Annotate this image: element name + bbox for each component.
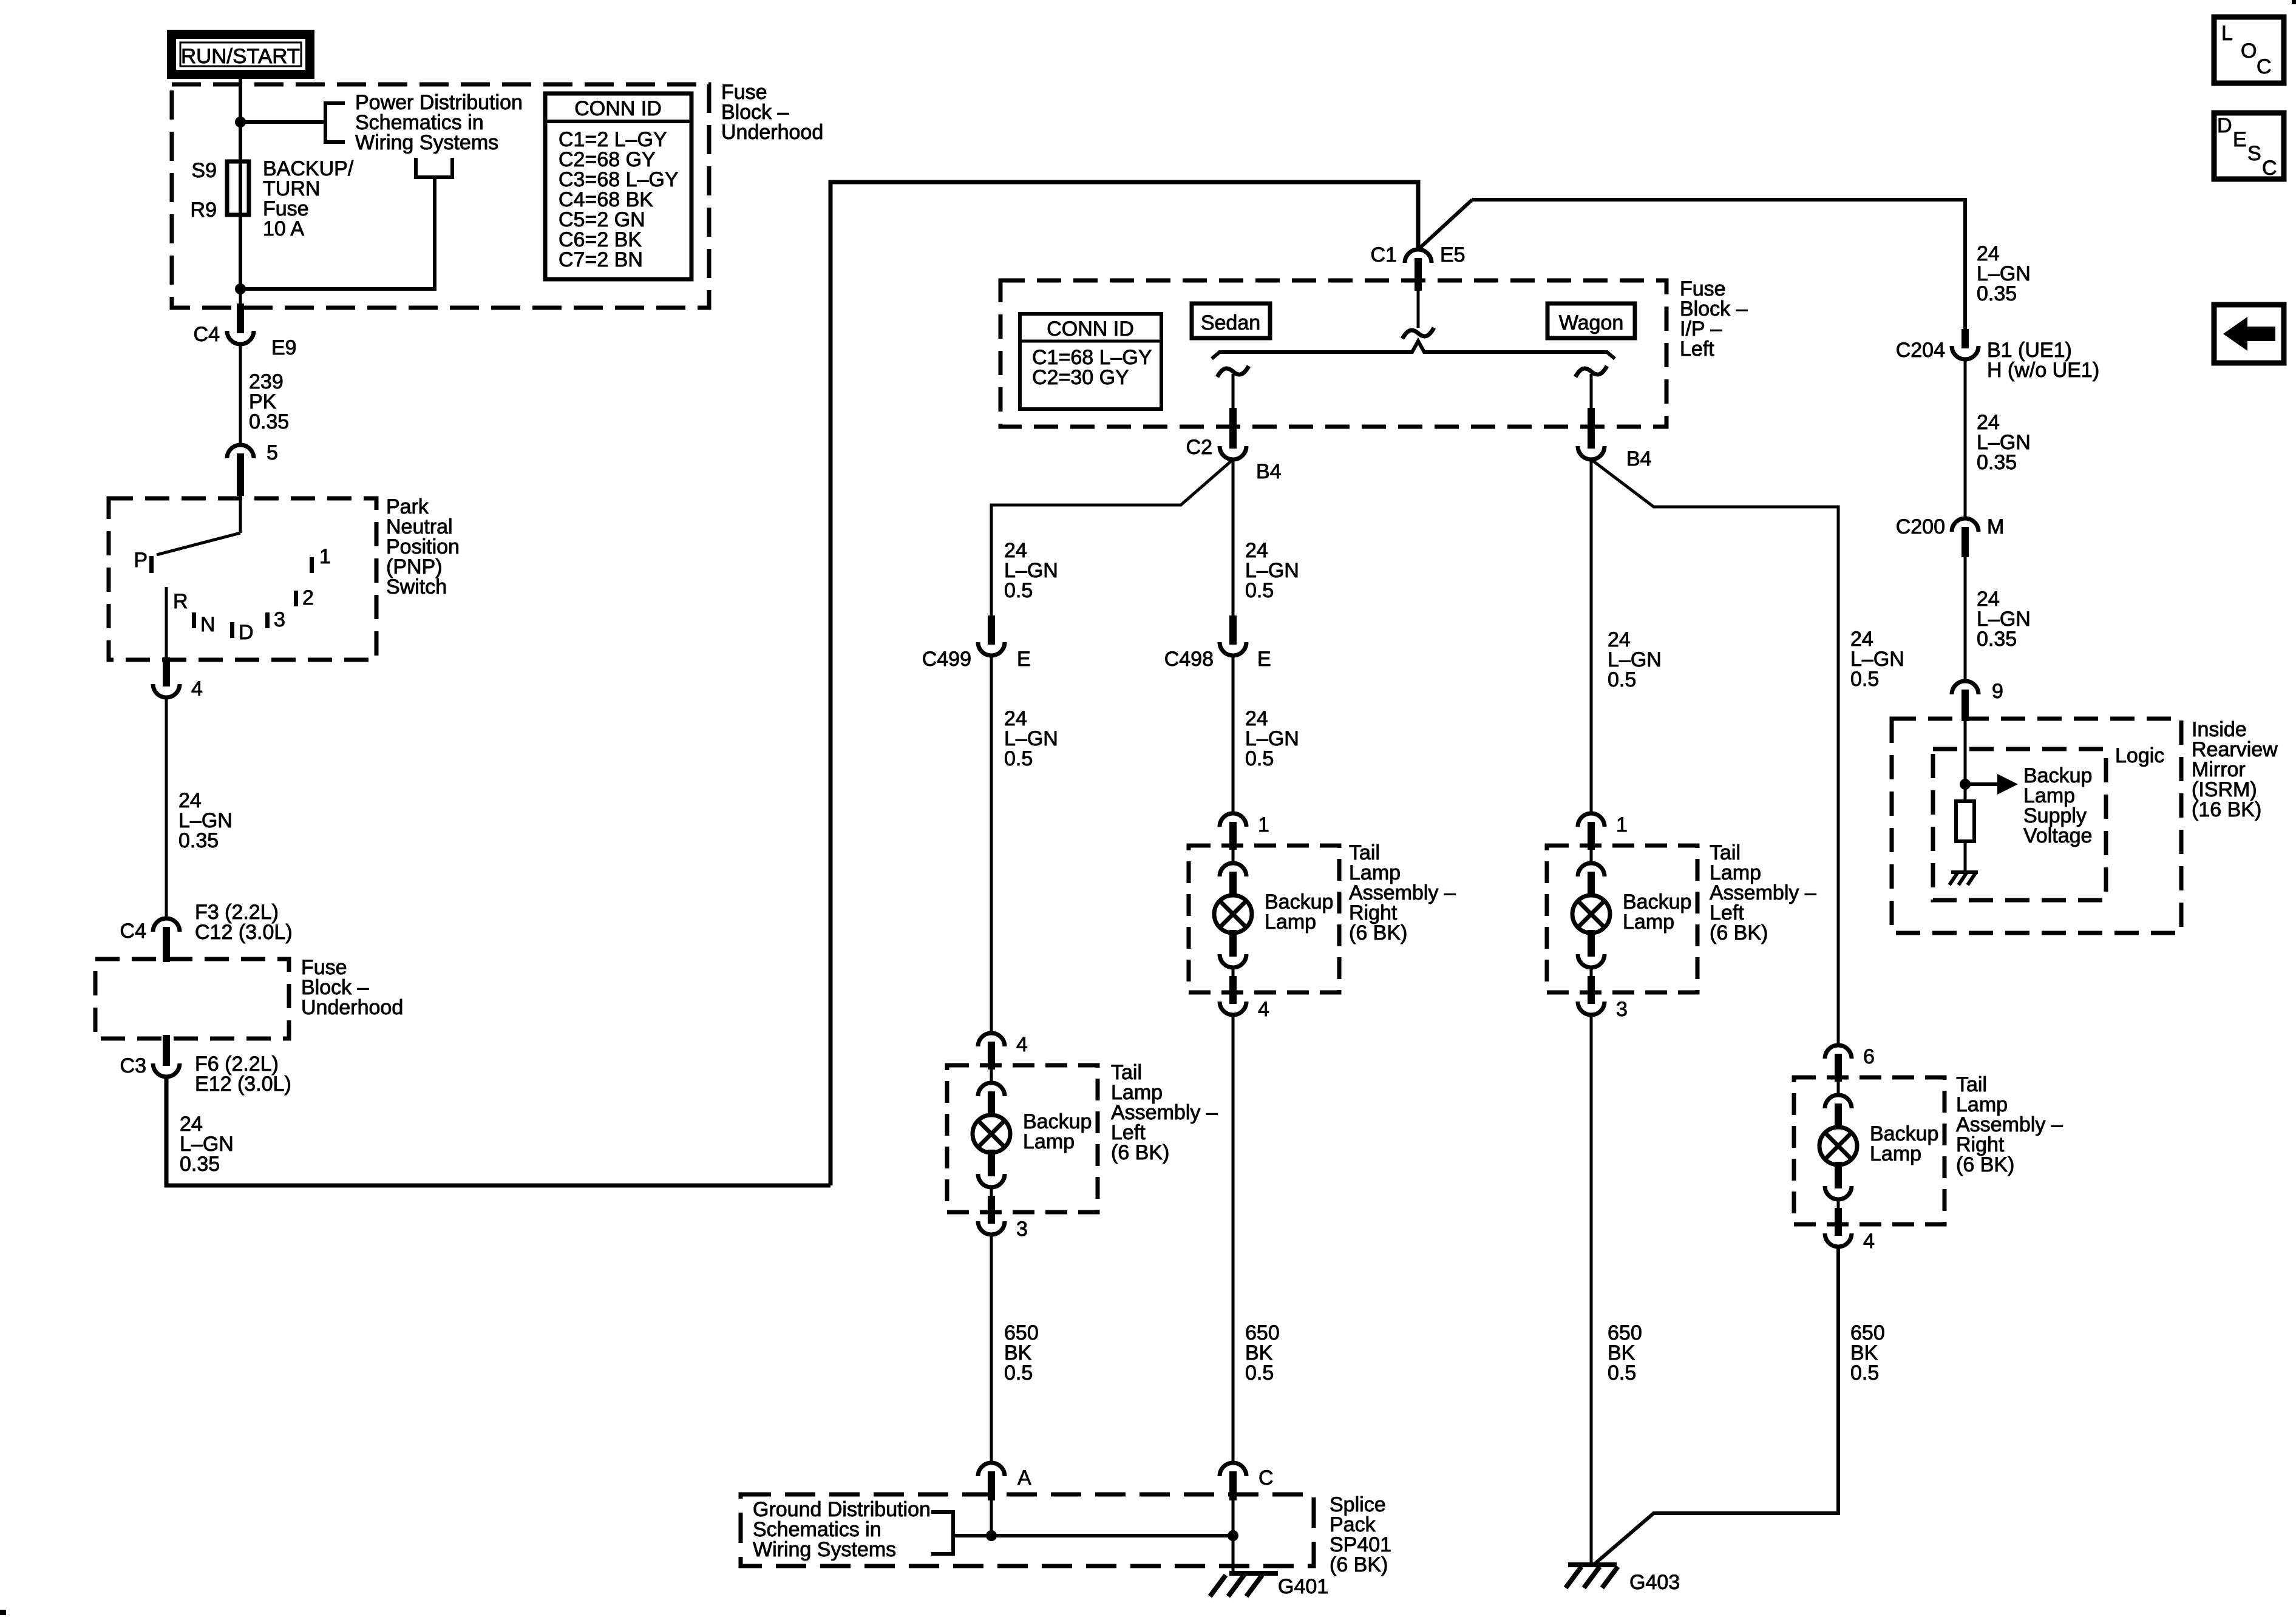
svg-text:G403: G403 [1629,1571,1680,1594]
label pin A [1017,1466,1031,1490]
svg-text:6: 6 [1863,1045,1875,1068]
svg-text:0.5: 0.5 [1004,747,1033,770]
in-box connector bottom sedan left [978,1150,1005,1198]
svg-text:0.5: 0.5 [1245,747,1274,770]
svg-text:C4: C4 [194,323,220,346]
label B4 sedan [1256,460,1282,483]
label pin C [1258,1466,1274,1490]
svg-text:(6 BK): (6 BK) [1956,1153,2014,1176]
nav box DESC [2214,113,2284,180]
connector C splice pack [1220,1463,1246,1500]
connector B4 wagon [1578,408,1605,459]
svg-text:R: R [173,590,188,613]
junction node below fuse [235,283,246,294]
svg-text:N: N [200,613,216,636]
label fuse block underhood [721,81,823,144]
svg-text:0.5: 0.5 [1004,1361,1033,1385]
PNP contact R wire [166,587,188,660]
svg-text:9: 9 [1992,680,2003,703]
svg-text:E9: E9 [271,336,297,359]
ground G401 [1210,1573,1278,1596]
off-page bracket power distribution [325,103,345,142]
in-box connector bottom sedan right [1220,930,1246,978]
in-box connector bottom wagon left [1578,930,1605,978]
corner tick bottom [0,1610,6,1615]
connector 9 into ISRM [1952,681,1978,721]
label splice pack SP401 [1330,1493,1391,1576]
svg-text:Wagon: Wagon [1559,311,1623,334]
wire C to ground [1232,1500,1235,1573]
svg-text:Sedan: Sedan [1201,311,1260,334]
tail lamp assembly box sedan left [947,1065,1098,1212]
connector C2 pin B4 sedan [1220,408,1246,459]
split brace sedan/wagon [1212,341,1615,359]
wire C204 to C200 [1964,359,1967,518]
svg-text:M: M [1987,515,2004,538]
connector C200 pin M [1952,518,1978,557]
label C4 [194,323,220,346]
wire RUN/START to fuse S9 [239,79,242,164]
label BACKUP/TURN Fuse 10 A [263,157,354,240]
svg-text:R9: R9 [191,198,217,222]
label 24 L-GN 0.5 sedan-left below [1004,707,1058,770]
label M [1987,515,2004,538]
wire wagon split diagonal to right lamp column [1591,459,1838,1046]
label 24 L-GN 0.5 wagon-right [1850,628,1904,691]
connector pin 3 sedan left [978,1196,1005,1235]
label C499 [922,648,971,671]
splice pack SP401 box [741,1494,1314,1566]
svg-text:(6 BK): (6 BK) [1330,1553,1388,1576]
wire C499 to lamp connector [990,656,993,1034]
svg-text:Lamp: Lamp [1023,1130,1075,1153]
connector 4 out of PNP [153,657,180,697]
fuse block underhood box [172,84,709,308]
fuse block underhood box lower [95,959,289,1039]
svg-text:C7=2 BN: C7=2 BN [559,248,643,271]
label C1 [1371,243,1397,266]
svg-text:4: 4 [1258,998,1269,1021]
PNP contact N [192,612,216,636]
wire sedan branch to C2 [1232,374,1235,410]
in-box connector top sedan left [978,1068,1005,1116]
svg-text:CONN ID: CONN ID [1047,317,1134,341]
wire into logic [1964,721,1967,801]
connector pin 4 sedan right [1220,976,1246,1015]
svg-text:B4: B4 [1256,460,1282,483]
connector pin 3 wagon left [1578,976,1605,1015]
label pin 4 wagon right [1863,1230,1875,1253]
junction node logic [1960,779,1971,790]
connector C498 pin E [1220,615,1246,656]
svg-text:O: O [2241,39,2257,63]
PNP common wire [239,496,242,533]
label 24 L-GN 0.35 right upper [1977,242,2031,305]
connector pin 4 wagon right [1825,1208,1852,1247]
connector pin 4 sedan left [978,1033,1005,1070]
svg-text:0.35: 0.35 [1977,628,2017,651]
connector pin 6 wagon right [1825,1045,1852,1082]
label tail lamp assembly sedan right [1349,841,1456,944]
label wire 24 L-GN 0.35 upper [178,789,233,852]
ignition voltage tag RUN/START [167,30,314,79]
backup lamp bulb sedan left [973,1115,1010,1153]
nav box LOC [2214,17,2284,83]
off-page bracket ground distribution [931,1512,953,1554]
label B1 H [1987,339,2099,382]
break symbol at C1 [1402,328,1434,339]
svg-text:C2=30 GY: C2=30 GY [1032,366,1129,389]
svg-text:S9: S9 [191,159,217,182]
label C204 [1896,339,1945,362]
in-box connector bottom wagon right [1825,1162,1852,1210]
wire sedan-left lamp to splice A [990,1235,993,1464]
wire wagon-right lamp to G403 [1594,1247,1838,1565]
wire C1 stub to brace [1417,282,1420,328]
label backup lamp sedan right [1265,890,1333,934]
svg-text:4: 4 [191,677,203,700]
svg-text:C2: C2 [1186,436,1212,459]
wire PNP to C4 [165,697,168,920]
label fuse block underhood lower [301,956,403,1019]
label pin 3 sedan left [1016,1218,1028,1241]
label pin 5 [267,441,278,464]
connector 5 into PNP switch [227,445,254,496]
svg-text:0.5: 0.5 [1004,579,1033,602]
svg-text:3: 3 [274,608,285,631]
label 650 BK 0.5 sedan-right [1245,1321,1280,1385]
svg-text:C1: C1 [1371,243,1397,266]
svg-text:(6 BK): (6 BK) [1111,1141,1169,1164]
label 650 BK 0.5 wagon-left [1608,1321,1642,1385]
svg-text:Logic: Logic [2115,744,2164,767]
connector C1 pin E5 [1405,249,1432,291]
label C498 [1164,648,1214,671]
label pin 4 [191,677,203,700]
connector C4 pin F3/C12 [153,918,180,962]
label backup lamp wagon right [1870,1122,1938,1165]
resistor in logic [1956,801,1974,872]
svg-text:L: L [2221,22,2233,45]
label ground distribution schematics [753,1498,931,1561]
label S9 [191,159,217,182]
svg-text:S: S [2247,142,2261,165]
svg-text:D: D [2217,114,2232,137]
svg-text:1: 1 [1258,813,1269,836]
connector pin 1 sedan right [1220,813,1246,850]
svg-text:C12 (3.0L): C12 (3.0L) [195,921,293,944]
label pin 3 wagon left [1616,998,1628,1021]
label G401 [1278,1575,1328,1598]
svg-text:C200: C200 [1896,515,1945,538]
junction node C bus [1228,1530,1238,1541]
label F3 C12 [195,901,293,944]
label pin 1 wagon left [1616,813,1628,836]
label 24 L-GN 0.35 right middle [1977,411,2031,474]
svg-text:(6 BK): (6 BK) [1349,921,1407,944]
backup lamp bulb wagon left [1572,895,1610,933]
connector A splice pack [978,1463,1005,1500]
wire C3 down and right to return riser [166,1077,830,1185]
logic internal ground [1949,872,1978,885]
fuse S9/R9 BACKUP/TURN 10A [227,161,249,289]
svg-text:4: 4 [1863,1230,1875,1253]
PNP contact 1 [310,545,331,573]
inside rearview mirror box [1892,719,2181,933]
label tail lamp assembly wagon right [1956,1073,2063,1176]
tail lamp assembly box sedan right [1189,846,1339,992]
svg-text:Wiring Systems: Wiring Systems [753,1538,896,1561]
wire sedan split diagonal to left lamp column [991,459,1233,617]
svg-text:C: C [2262,157,2277,180]
fuse block I/P left box [1000,280,1666,427]
label tail lamp assembly sedan left [1111,1061,1218,1164]
connector C499 pin E [978,615,1005,656]
label F6 E12 [195,1053,291,1096]
svg-text:Switch: Switch [386,575,447,598]
backup lamp bulb wagon right [1819,1127,1857,1165]
wire return riser up [829,180,833,1185]
svg-text:C3: C3 [120,1054,146,1077]
PNP contact 2 [294,586,314,609]
svg-text:E: E [1257,648,1271,671]
label 24 L-GN 0.5 sedan-right above [1245,539,1299,602]
wire A to bus [990,1500,993,1536]
label R9 [191,198,217,222]
tag Wagon [1547,303,1635,338]
label C2 [1186,436,1212,459]
label park neutral position switch [386,495,460,598]
wire sedan right column to C498 [1232,459,1235,617]
svg-text:2: 2 [302,586,314,609]
svg-text:E12 (3.0L): E12 (3.0L) [195,1073,291,1096]
svg-text:Voltage: Voltage [2023,824,2092,847]
label pin 6 wagon right [1863,1045,1875,1068]
wire wagon-left lamp to G403 [1590,1015,1593,1565]
svg-text:Left: Left [1680,337,1714,361]
label backup lamp sedan left [1023,1110,1092,1153]
label wire 24 L-GN 0.35 lower [180,1113,234,1176]
PNP contact 3 [265,608,285,631]
break symbol sedan branch [1217,366,1249,377]
connector C3 pin F6/E12 [153,1035,180,1077]
svg-text:(16 BK): (16 BK) [2192,798,2261,821]
svg-text:0.5: 0.5 [1245,1361,1274,1385]
svg-text:C4: C4 [120,920,146,943]
svg-text:0.5: 0.5 [1850,668,1879,691]
label B4 wagon [1626,447,1652,470]
in-box connector top wagon right [1825,1080,1852,1128]
PNP contact D [230,621,254,644]
svg-text:G401: G401 [1278,1575,1328,1598]
svg-text:Wiring Systems: Wiring Systems [355,131,498,154]
label 24 L-GN 0.5 sedan-right below [1245,707,1299,770]
label pin 4 sedan right [1258,998,1269,1021]
svg-text:3: 3 [1616,998,1628,1021]
connector C4 pin E9 [227,289,254,344]
svg-text:0.5: 0.5 [1245,579,1274,602]
svg-text:Lamp: Lamp [1870,1142,1921,1165]
nav box back arrow [2214,305,2284,363]
wire wagon branch to B4 [1590,374,1593,410]
label wire 239 PK 0.35 [249,370,289,433]
svg-text:C: C [2257,55,2272,78]
svg-text:E: E [2233,128,2247,151]
svg-text:0.35: 0.35 [180,1153,220,1176]
label inside rearview mirror [2192,718,2278,821]
in-box connector top sedan right [1220,849,1246,896]
svg-text:E5: E5 [1440,243,1466,266]
label power distribution schematics [355,91,523,154]
label E9 [271,336,297,359]
PNP switch blade to P [157,533,240,555]
svg-text:0.35: 0.35 [178,829,219,852]
svg-text:10 A: 10 A [263,217,304,240]
break symbol wagon branch [1575,366,1607,377]
svg-text:C499: C499 [922,648,971,671]
label C200 [1896,515,1945,538]
label tail lamp assembly wagon left [1710,841,1816,944]
svg-text:0.5: 0.5 [1608,668,1636,691]
PNP contact P [134,549,154,573]
svg-text:A: A [1017,1466,1031,1490]
label 24 L-GN 0.35 right lower [1977,588,2031,651]
label backup lamp supply voltage [2023,764,2092,847]
tag Sedan [1192,303,1270,338]
svg-text:3: 3 [1016,1218,1028,1241]
label E sedan-left [1017,648,1031,671]
conn id table (underhood) [545,93,691,279]
label C4 second [120,920,146,943]
svg-text:Lamp: Lamp [1623,910,1674,934]
in-box connector top wagon left [1578,849,1605,896]
backup lamp bulb sedan right [1214,895,1252,933]
label 24 L-GN 0.5 sedan-left above [1004,539,1058,602]
svg-text:C: C [1258,1466,1274,1490]
label E5 [1440,243,1466,266]
svg-text:5: 5 [267,441,278,464]
svg-text:B4: B4 [1626,447,1652,470]
connector C204 pin B1/H [1952,329,1978,359]
connector pin 1 wagon left [1578,813,1605,850]
label pin 9 [1992,680,2003,703]
svg-text:Lamp: Lamp [1265,910,1316,934]
svg-text:CONN ID: CONN ID [574,97,662,120]
svg-text:Underhood: Underhood [301,996,403,1019]
wire C200 to pin 9 [1964,557,1967,682]
wire C4 to connector 5 [239,344,242,445]
svg-text:D: D [239,621,254,644]
junction node A bus [986,1530,997,1541]
wire C498 to lamp connector [1232,656,1235,815]
svg-text:C204: C204 [1896,339,1945,362]
wire diagonal C1 to right run [1418,200,1472,249]
label fuse block I/P left [1680,277,1748,361]
svg-text:0.5: 0.5 [1608,1361,1636,1385]
label 650 BK 0.5 sedan-left [1004,1321,1039,1385]
svg-text:P: P [134,549,148,572]
junction node above fuse [235,117,246,127]
label pin 4 sedan left [1016,1033,1028,1056]
wire sedan-right lamp to splice C [1232,1015,1235,1464]
svg-text:(6 BK): (6 BK) [1710,921,1768,944]
label 24 L-GN 0.5 wagon-left [1608,628,1662,691]
tail lamp assembly box wagon right [1794,1077,1944,1224]
svg-text:0.5: 0.5 [1850,1361,1879,1385]
svg-text:Underhood: Underhood [721,121,823,144]
svg-text:C498: C498 [1164,648,1214,671]
wire top run to C1 [829,182,1418,251]
label backup lamp wagon left [1623,890,1691,934]
svg-text:H (w/o UE1): H (w/o UE1) [1987,359,2099,382]
conn id table (I/P) [1020,314,1161,409]
label C3 [120,1054,146,1077]
wire bracket to lower junction [240,177,435,289]
svg-text:1: 1 [319,545,331,568]
label pin 1 sedan right [1258,813,1269,836]
svg-text:0.35: 0.35 [249,410,289,433]
label 650 BK 0.5 wagon-right [1850,1321,1885,1385]
tail lamp assembly box wagon left [1547,846,1697,992]
label logic [2115,744,2164,767]
wire wagon left column down [1590,459,1593,813]
svg-text:RUN/START: RUN/START [181,45,300,68]
svg-text:4: 4 [1016,1033,1028,1056]
logic box [1933,749,2106,900]
splice bus wire [953,1534,1233,1537]
svg-text:0.35: 0.35 [1977,451,2017,474]
signal arrow backup lamp supply voltage [1965,774,2018,795]
label E sedan-right [1257,648,1271,671]
corner tick [2292,0,2296,4]
svg-text:E: E [1017,648,1031,671]
svg-text:1: 1 [1616,813,1628,836]
ground G403 [1566,1565,1618,1588]
label G403 [1629,1571,1680,1594]
PNP switch box [109,498,376,660]
wire top run to ISRM drop [1472,200,1965,330]
off-page bracket under wiring systems [416,158,452,177]
wire junction to power-distribution bracket [240,120,325,124]
svg-text:0.35: 0.35 [1977,282,2017,305]
